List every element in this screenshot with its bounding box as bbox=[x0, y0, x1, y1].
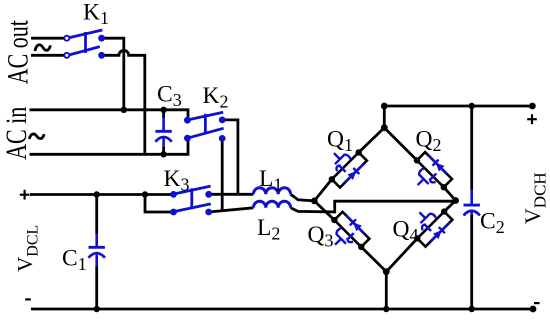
svg-text:C2: C2 bbox=[480, 209, 505, 238]
svg-text:Q1: Q1 bbox=[327, 127, 353, 156]
svg-text:AC out: AC out bbox=[1, 20, 34, 85]
svg-text:L1: L1 bbox=[259, 166, 282, 195]
svg-text:VDCL: VDCL bbox=[13, 225, 41, 272]
svg-text:C3: C3 bbox=[157, 82, 182, 111]
svg-text:K3: K3 bbox=[164, 166, 190, 195]
svg-text:K1: K1 bbox=[83, 0, 109, 28]
svg-text:AC in: AC in bbox=[0, 107, 33, 160]
svg-text:Q3: Q3 bbox=[308, 222, 334, 251]
svg-text:K2: K2 bbox=[203, 83, 229, 112]
svg-text:VDCH: VDCH bbox=[520, 172, 550, 224]
svg-text:L2: L2 bbox=[257, 215, 280, 244]
svg-text:Q2: Q2 bbox=[416, 127, 442, 156]
svg-text:C1: C1 bbox=[62, 246, 87, 275]
svg-text:Q4: Q4 bbox=[393, 217, 419, 246]
